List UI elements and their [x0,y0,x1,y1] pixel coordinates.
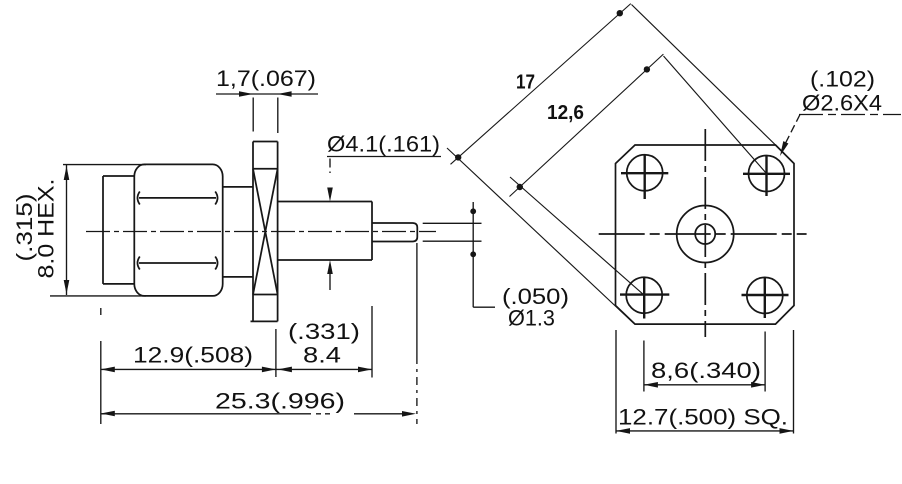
dot dim17 lower-left [455,154,461,160]
hex nut body outline [134,164,222,296]
arrow dia2.6 leader [780,141,788,156]
hex nut back cap left edge [102,176,104,284]
extension line hex left bottom [100,308,102,315]
right view bottom extension line hole-left [643,341,645,392]
right view bottom extension line far-right [793,330,795,434]
pin dia leader horizontal [473,306,495,308]
arrow dia4.1 top [327,188,333,202]
right view vertical centerline [704,129,706,337]
arrow hex-height bottom [64,280,70,294]
flange 1,7 dim extension line left [252,98,254,132]
arrow 1,7 left [239,91,253,97]
body top edge [278,201,372,203]
hole top-left circle [627,155,663,191]
svg-text:Ø2.6X4: Ø2.6X4 [802,91,882,116]
dia 2.6 label underline dashed [799,114,901,116]
hex facet end arc upper-right [215,192,217,205]
dimension line 8,6 [644,384,765,386]
pin dia dimension vertical line [472,202,474,307]
pin rounded end [413,223,418,242]
hex height bottom extension line [50,295,146,297]
right view horizontal centerline [599,233,807,235]
dia 2.6 leader dashed [782,115,801,152]
dia 4.1 label underline [327,156,441,158]
diagonal extension from top-right corner [632,5,785,155]
diagonal extension from top-right hole [664,56,767,174]
svg-text:8.0 HEX.: 8.0 HEX. [34,179,59,279]
hex facet line lower [139,262,216,264]
flange X-hatch diagonal 1 [253,169,278,295]
arrow 25.3 left [101,411,115,417]
body bottom edge [278,259,372,261]
pin top edge [372,222,413,224]
flange top edge [253,141,278,143]
hole top-left crosshair [621,156,668,200]
hole top-right circle [749,156,785,192]
barrel bottom edge between hex and flange [223,276,253,278]
barrel top edge between hex and flange [223,186,253,188]
flange left edge [252,142,254,322]
dimension line 17 diagonal [451,4,631,165]
arrow 12.7 left [616,428,630,434]
flange 1,7 dim extension line right [277,98,279,134]
right view bottom extension line hole-right [764,332,766,392]
extension line body right down [371,306,373,378]
flange bottom tab top line [253,294,278,296]
svg-text:Ø4.1(.161): Ø4.1(.161) [327,132,440,157]
pin bottom edge [372,241,413,243]
center inner circle [695,224,715,244]
extension line flange right down [275,329,277,377]
pin extension line bottom [423,240,482,242]
svg-text:12.9(.508): 12.9(.508) [133,343,253,368]
hex facet end arc lower-left [138,257,140,270]
dimension line 25.3 [101,413,403,415]
hex facet line upper [139,197,216,199]
right view flange outline [616,145,795,324]
hex height dimension line [66,165,68,295]
arrow 8,6 right [751,382,765,388]
dimension line 12.7 [616,430,794,432]
dot dim12,6 lower-left [517,184,523,190]
dot dim12,6 upper-right [644,66,650,72]
svg-text:8,6(.340): 8,6(.340) [651,358,761,383]
arrow 8,6 left [644,382,658,388]
dot pin dim lower [470,251,476,257]
extension line left for bottom dims [100,341,102,424]
dot dim17 upper-right [617,10,623,16]
arrow 12.7 right [780,428,794,434]
centerline left view [86,231,436,233]
arrow dia4.1 bottom [327,260,333,274]
arrow 12.9 left [101,367,115,373]
dimension line 12.9 and 8.4 [101,368,372,370]
dia 4.1 leader lower tail [329,274,331,290]
svg-text:1,7(.067): 1,7(.067) [216,66,316,91]
dia 4.1 leader upper dash [329,159,331,174]
hex nut back cap top edge [103,175,134,177]
hole bottom-right circle [747,277,783,313]
dimension line 12,6 diagonal [510,54,664,196]
arrow 25.3 right [402,411,416,417]
arrow 12.9 right [262,367,276,373]
arrow 8.4 right [358,367,372,373]
svg-text:(.331): (.331) [288,319,360,344]
hex nut back cap bottom edge [103,283,134,285]
hex height top extension line [63,164,146,166]
svg-text:25.3(.996): 25.3(.996) [215,389,345,414]
svg-text:8.4: 8.4 [303,343,341,368]
flange top tab bottom line [253,168,278,170]
svg-text:Ø1.3: Ø1.3 [508,306,555,331]
svg-text:12,6: 12,6 [547,102,584,124]
right view bottom extension line far-left [615,330,617,434]
body right edge [371,202,373,261]
dot pin dim upper [470,208,476,214]
arrow 1,7 right [278,91,292,97]
hole top-right crosshair [743,156,790,196]
extension line pin end down [416,243,418,356]
diagonal extension from bottom-left corner [447,148,634,324]
flange 1,7 dimension line [216,93,318,95]
hole bottom-left circle [626,277,662,313]
svg-text:12.7(.500) SQ.: 12.7(.500) SQ. [618,405,788,430]
hex facet end arc upper-left [138,192,140,205]
flange X-hatch diagonal 2 [253,169,278,295]
pin extension line top [423,222,482,224]
hole bottom-left crosshair [620,277,669,319]
flange right edge [277,142,279,322]
center outer circle [677,206,734,263]
hex facet end arc lower-right [215,257,217,270]
hole bottom-right crosshair [742,277,789,318]
diagonal extension from bottom-left hole [510,177,644,295]
extension line pin end down dashed part [416,356,418,424]
flange bottom edge [251,320,278,322]
arrow 8.4 left [278,367,292,373]
arrow hex-height top [64,166,70,180]
svg-text:17: 17 [516,72,535,94]
svg-text:(.102): (.102) [810,67,875,92]
